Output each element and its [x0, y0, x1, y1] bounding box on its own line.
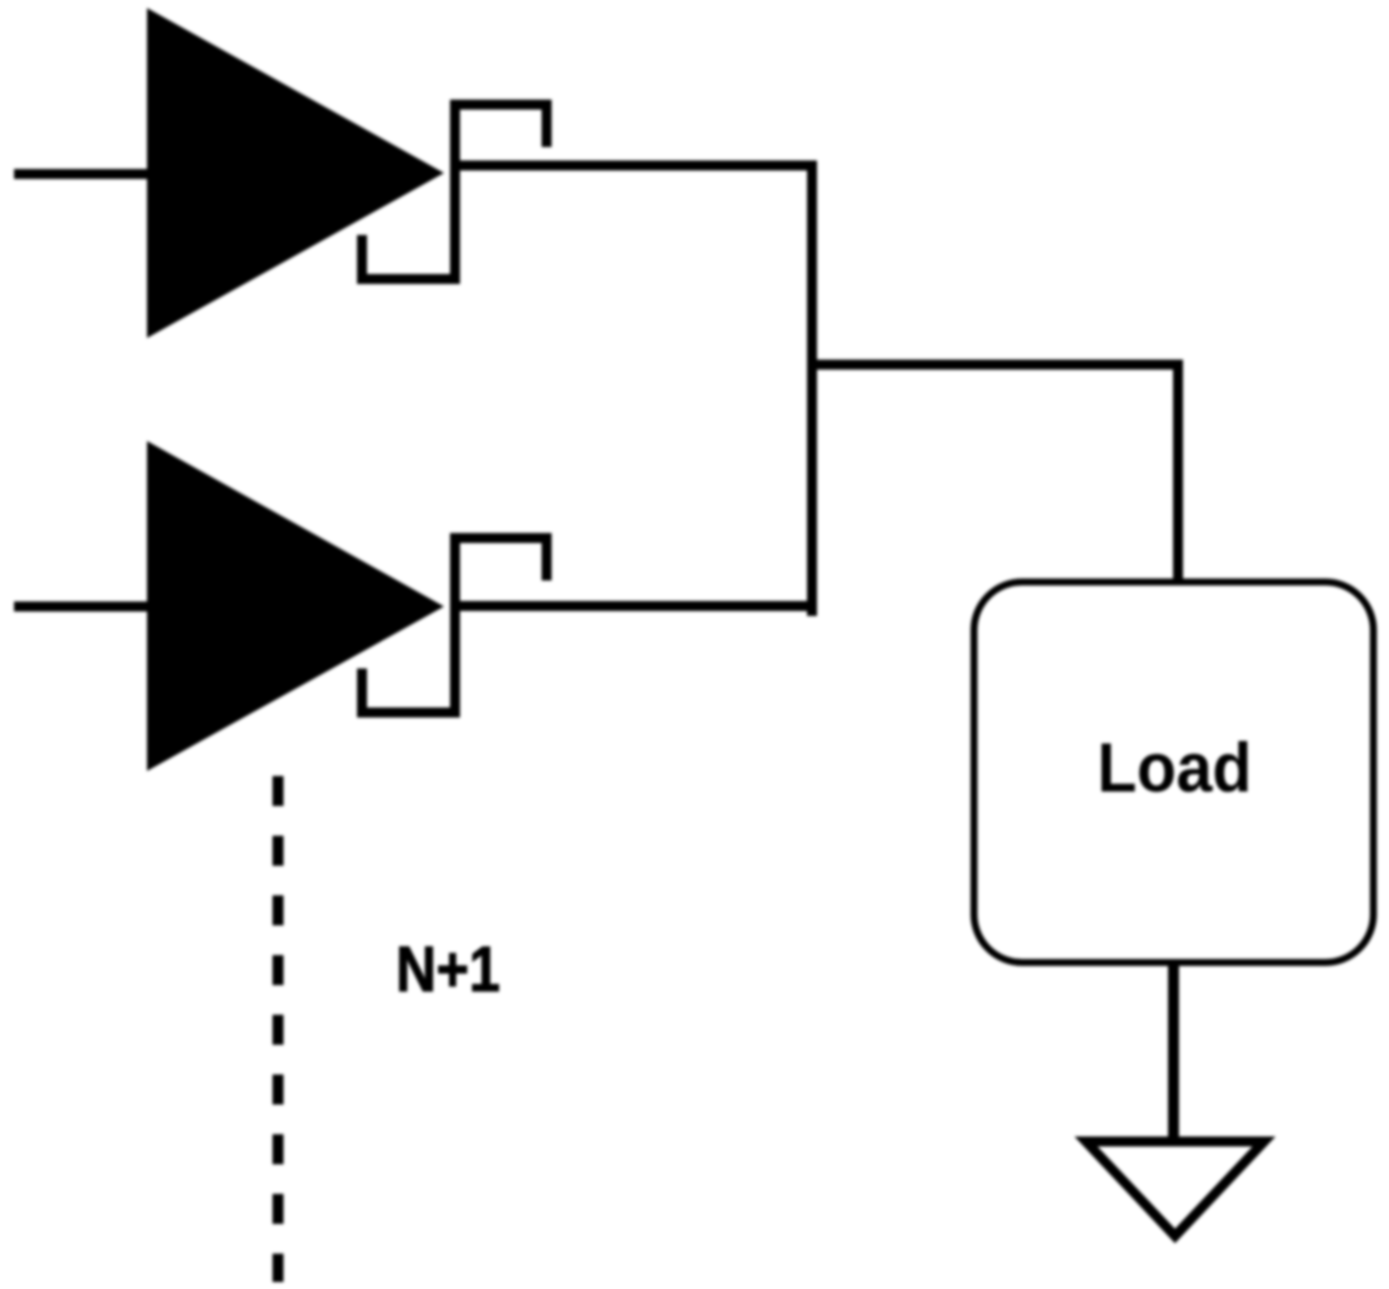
svg-text:N+1: N+1 [396, 934, 500, 1005]
svg-text:Load: Load [1097, 729, 1252, 807]
